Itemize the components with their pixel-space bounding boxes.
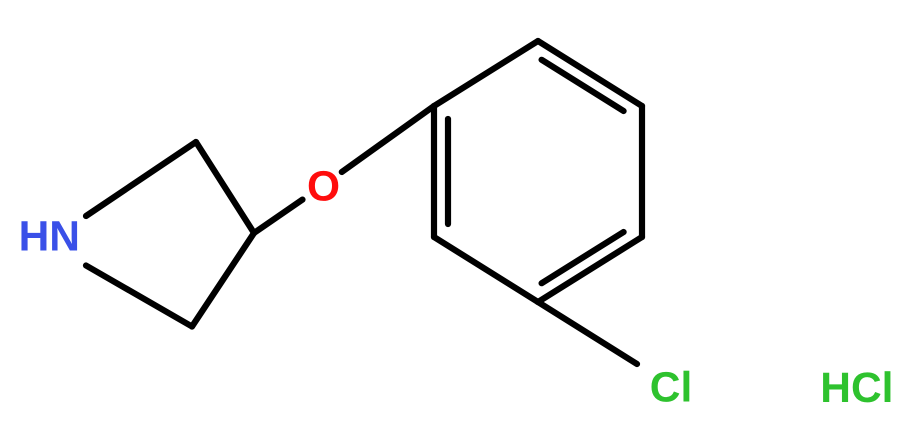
bond N-C4 (azetidine lower-left edge) — [86, 266, 192, 327]
bond C3-C4 (azetidine lower-right edge) — [192, 233, 254, 327]
svg-text:Cl: Cl — [650, 365, 693, 412]
double bond inner line C4'-C5' — [542, 232, 624, 283]
bond C5'-Cl — [538, 302, 637, 364]
bond C1'-C2' (benzene upper-left edge) — [434, 41, 538, 106]
svg-text:O: O — [307, 164, 340, 211]
bond C4'-C5' (benzene lower-right edge) — [538, 237, 642, 302]
bond C3-O (ether bond left) — [254, 200, 303, 233]
bond N-C2 (azetidine upper-left edge) — [86, 142, 196, 216]
svg-text:HN: HN — [19, 214, 80, 261]
svg-text:HCl: HCl — [820, 365, 893, 412]
bond C6'-C1' (benzene left vertical edge) — [431, 106, 437, 237]
bond C2-C3 (azetidine upper-right edge) — [196, 142, 254, 233]
bond C5'-C6' (benzene lower-left edge) — [434, 237, 538, 302]
double bond inner line C2'-C3' — [542, 60, 624, 111]
double bond inner line C6'-C1' — [445, 119, 451, 224]
bond C2'-C3' (benzene upper-right edge) — [538, 41, 642, 106]
bond O-C1' (ether bond to phenyl ipso carbon) — [342, 106, 434, 172]
bond C3'-C4' (benzene right vertical edge) — [639, 106, 645, 237]
